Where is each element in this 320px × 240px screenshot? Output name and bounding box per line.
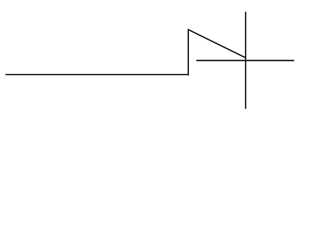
wire <box>6 74 190 76</box>
wire <box>245 12 247 109</box>
wire <box>187 29 189 75</box>
wire <box>188 30 245 58</box>
wire <box>196 60 294 62</box>
